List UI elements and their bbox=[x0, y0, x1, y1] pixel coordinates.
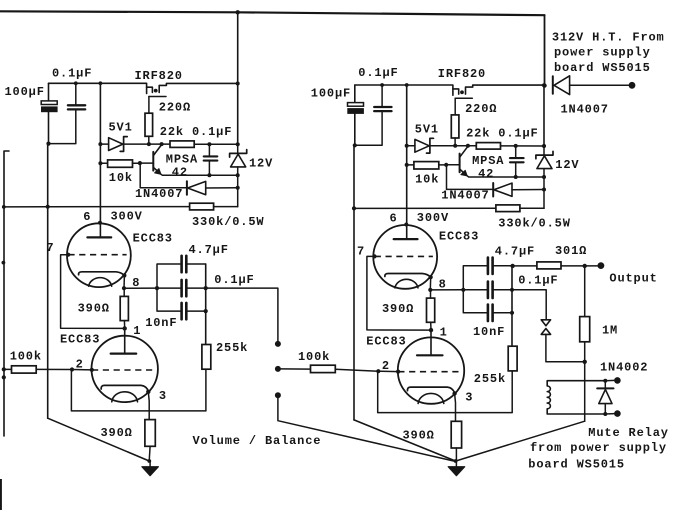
relay coil bbox=[547, 381, 605, 414]
transistor MPSA42 R bbox=[446, 146, 468, 176]
label pin7 R bbox=[357, 244, 365, 258]
connector arrow down bbox=[541, 320, 550, 326]
resistor 22k R bbox=[455, 143, 544, 150]
svg-text:MPSA: MPSA bbox=[166, 152, 198, 166]
junction pin7 L bbox=[66, 253, 70, 257]
junction base node R bbox=[444, 163, 448, 167]
junction pin3 R bbox=[452, 391, 456, 395]
svg-text:IRF820: IRF820 bbox=[135, 69, 183, 83]
label 10k L bbox=[109, 171, 133, 185]
svg-text:board WS5015: board WS5015 bbox=[528, 457, 625, 471]
transistor IRF820 L body bbox=[147, 83, 238, 113]
junction pin3 L bbox=[146, 390, 150, 394]
tube ECC83 lower R envelope bbox=[398, 337, 464, 403]
svg-text:8: 8 bbox=[439, 278, 447, 292]
svg-text:7: 7 bbox=[46, 241, 54, 255]
tube upper cathode R bbox=[385, 274, 431, 288]
resistor 301R bbox=[513, 262, 598, 269]
label 255k L bbox=[216, 341, 248, 355]
svg-text:3: 3 bbox=[465, 391, 473, 405]
svg-text:0.1µF: 0.1µF bbox=[52, 67, 92, 81]
resistor 10k R bbox=[407, 162, 447, 169]
wire 255k loop L bbox=[71, 369, 206, 411]
junction 100uF bottom R bbox=[353, 143, 357, 147]
wire cap ladder left rail R bbox=[461, 266, 486, 313]
svg-text:255k: 255k bbox=[474, 372, 506, 386]
junction 12V top R bbox=[542, 144, 546, 148]
junction pin2 node L bbox=[70, 367, 74, 371]
junction relay top bbox=[603, 379, 607, 383]
resistor 100k input L bbox=[4, 366, 72, 373]
svg-text:1N4007: 1N4007 bbox=[135, 187, 183, 201]
label from power supply bbox=[530, 441, 667, 455]
label pin3 L bbox=[159, 389, 167, 403]
wire HT filter rail R bbox=[355, 85, 453, 95]
diode 1N4007 L bbox=[140, 164, 238, 195]
resistor 330k R bbox=[354, 205, 544, 212]
resistor 390R lower L bbox=[145, 392, 155, 461]
wire emitter row R bbox=[467, 176, 544, 177]
svg-text:10k: 10k bbox=[109, 171, 133, 185]
junction relay bottom bbox=[603, 412, 607, 416]
wire 330k far-left L bbox=[4, 206, 48, 208]
svg-text:301Ω: 301Ω bbox=[555, 244, 587, 258]
tube lower anode R bbox=[417, 330, 443, 355]
junction pin7 R bbox=[372, 254, 376, 258]
junction 10k row R bbox=[405, 163, 409, 167]
svg-text:power supply: power supply bbox=[554, 46, 651, 60]
svg-text:390Ω: 390Ω bbox=[382, 302, 414, 316]
wire supply riser L bbox=[237, 12, 239, 83]
label Volume / Balance bbox=[193, 434, 322, 448]
label 5V1 L bbox=[109, 121, 133, 135]
svg-text:100k: 100k bbox=[298, 350, 330, 364]
capacitor 100uF L bbox=[41, 83, 58, 143]
wire pin2 L bbox=[72, 369, 92, 371]
wire relay drop bbox=[456, 362, 585, 461]
junction pin1 node R bbox=[429, 328, 433, 332]
svg-text:100k: 100k bbox=[10, 349, 42, 363]
label IRF820 L bbox=[135, 69, 183, 83]
wire 255k loop R bbox=[378, 371, 513, 413]
terminal relay top bbox=[605, 377, 620, 384]
label 300V R bbox=[417, 211, 449, 225]
junction input rail c bbox=[2, 367, 6, 371]
resistor 390R upper R bbox=[427, 290, 435, 330]
label 42 R bbox=[478, 167, 494, 181]
label 312V line3 bbox=[554, 61, 651, 75]
label 1M bbox=[602, 323, 618, 337]
junction collector node R bbox=[466, 144, 470, 148]
svg-text:312V H.T. From: 312V H.T. From bbox=[552, 30, 665, 44]
label 0.1uF out R bbox=[518, 273, 558, 287]
svg-text:from power supply: from power supply bbox=[530, 441, 667, 455]
svg-text:8: 8 bbox=[132, 276, 140, 290]
label 100k R bbox=[298, 350, 330, 364]
wire pin8 R bbox=[430, 277, 463, 290]
junction rail top L bbox=[99, 81, 103, 85]
wire pin2 R bbox=[378, 370, 398, 372]
label 390R lower R bbox=[403, 429, 435, 443]
svg-text:1N4007: 1N4007 bbox=[441, 189, 489, 203]
svg-text:0.1µF: 0.1µF bbox=[214, 273, 254, 287]
label 330k/0.5W L bbox=[192, 215, 264, 229]
svg-text:42: 42 bbox=[172, 166, 188, 180]
node volume top bbox=[275, 341, 281, 347]
svg-text:1N4007: 1N4007 bbox=[561, 102, 609, 116]
label 10nF R bbox=[473, 325, 505, 339]
svg-text:2: 2 bbox=[76, 357, 84, 371]
ground R bbox=[448, 459, 465, 476]
label Output bbox=[609, 272, 657, 286]
svg-text:330k/0.5W: 330k/0.5W bbox=[498, 217, 570, 231]
label pin2 R bbox=[382, 359, 390, 373]
label pin6 L bbox=[83, 210, 91, 224]
label 390R lower L bbox=[101, 426, 133, 440]
label 220R L bbox=[159, 100, 191, 114]
svg-text:board WS5015: board WS5015 bbox=[554, 61, 651, 75]
junction drain-rail L bbox=[236, 82, 240, 86]
tube upper cathode L bbox=[79, 272, 125, 286]
label 1N4007 HT bbox=[561, 102, 609, 116]
svg-text:3: 3 bbox=[159, 389, 167, 403]
svg-text:390Ω: 390Ω bbox=[403, 429, 435, 443]
tube ECC83 upper R envelope bbox=[373, 225, 437, 289]
junction input rail a bbox=[2, 205, 6, 209]
label pin1 L bbox=[133, 324, 141, 338]
label ECC83 upper L bbox=[133, 232, 173, 246]
junction 12V bottom R bbox=[542, 175, 546, 179]
junction pin8 cathode R bbox=[429, 275, 433, 279]
terminal Output bbox=[598, 262, 605, 269]
resistor 390R lower R bbox=[451, 394, 461, 462]
wire volume bottom bbox=[278, 398, 454, 461]
ground L bbox=[142, 459, 159, 476]
label 100k L bbox=[10, 349, 42, 363]
label ECC83 lower R bbox=[366, 334, 406, 348]
junction pin8 cathode L bbox=[122, 273, 126, 277]
tube lower grid L bbox=[92, 369, 153, 371]
junction zener row L bbox=[98, 142, 102, 146]
svg-text:1M: 1M bbox=[602, 323, 618, 337]
label Mute Relay bbox=[588, 426, 669, 440]
svg-text:100µF: 100µF bbox=[311, 87, 351, 101]
svg-text:12V: 12V bbox=[249, 156, 273, 170]
junction 330k left R bbox=[352, 206, 356, 210]
label ECC83 upper R bbox=[439, 229, 479, 243]
diode zener 12V R bbox=[536, 146, 553, 208]
tube upper grid L bbox=[68, 254, 126, 256]
resistor 100k input R bbox=[281, 365, 378, 372]
wire 0.1uF to connector bbox=[513, 290, 547, 319]
label pin2 L bbox=[76, 357, 84, 371]
junction output row bbox=[510, 264, 514, 268]
tube lower grid R bbox=[398, 371, 459, 373]
transistor IRF820 R body bbox=[453, 85, 544, 115]
wire HT filter rail L bbox=[49, 83, 147, 93]
wire pin8 L bbox=[124, 276, 157, 289]
junction pin1 node L bbox=[123, 326, 127, 330]
label 220R R bbox=[465, 102, 497, 116]
resistor 255k R bbox=[508, 346, 517, 371]
wire input stub bottom-left bbox=[0, 479, 2, 510]
diode zener 5V1 L bbox=[100, 137, 148, 152]
resistor 220R L bbox=[145, 113, 153, 144]
junction smallcap top R bbox=[514, 144, 518, 148]
svg-text:1: 1 bbox=[440, 326, 448, 340]
terminal relay bottom bbox=[605, 410, 620, 417]
wire pin7 return L bbox=[61, 255, 125, 329]
label 1N4002 bbox=[600, 360, 648, 374]
junction pin8 node L bbox=[122, 286, 126, 290]
svg-text:6: 6 bbox=[83, 210, 91, 224]
diode 1N4007 R bbox=[447, 166, 545, 197]
label pin6 R bbox=[390, 212, 398, 226]
junction smallcap top L bbox=[207, 142, 211, 146]
svg-text:0.1µF: 0.1µF bbox=[518, 273, 558, 287]
wire emitter row L bbox=[161, 174, 238, 175]
svg-text:MPSA: MPSA bbox=[472, 154, 504, 168]
junction 220R bottom R bbox=[453, 144, 457, 148]
resistor 330k L bbox=[48, 203, 238, 210]
resistor 22k L bbox=[149, 141, 238, 148]
svg-text:0.1µF: 0.1µF bbox=[358, 66, 398, 80]
svg-text:22k 0.1µF: 22k 0.1µF bbox=[160, 125, 232, 139]
label pin8 L bbox=[132, 276, 140, 290]
junction collector node L bbox=[160, 142, 164, 146]
tube ECC83 upper L envelope bbox=[67, 223, 131, 287]
svg-text:Output: Output bbox=[609, 272, 657, 286]
wire sense rail L bbox=[99, 83, 101, 207]
label 300V L bbox=[111, 209, 143, 223]
svg-text:255k: 255k bbox=[216, 341, 248, 355]
label 12V L bbox=[249, 156, 273, 170]
junction pin2 grid R bbox=[396, 370, 400, 374]
wire sense rail R bbox=[406, 85, 408, 209]
label 312V line2 bbox=[554, 46, 651, 60]
wire cap rail down L bbox=[48, 144, 150, 461]
wire top HT rail bbox=[0, 11, 545, 15]
wire HT column mid R bbox=[543, 85, 545, 146]
label 5V1 R bbox=[415, 122, 439, 136]
svg-text:ECC83: ECC83 bbox=[439, 229, 479, 243]
svg-text:4.7µF: 4.7µF bbox=[495, 245, 535, 259]
junction input rail b bbox=[2, 261, 6, 265]
capacitor 0.1uF gate R bbox=[510, 146, 524, 177]
junction filmcap top L bbox=[74, 81, 78, 85]
junction 220R bottom L bbox=[147, 142, 151, 146]
resistor 220R R bbox=[451, 115, 459, 146]
label 42 L bbox=[172, 166, 188, 180]
transistor MPSA42 L bbox=[140, 145, 162, 175]
wire pin7 return R bbox=[367, 256, 431, 330]
junction base node L bbox=[138, 161, 142, 165]
label MPSA R bbox=[472, 154, 504, 168]
capacitor 0.1uF supply R bbox=[354, 85, 392, 145]
svg-text:1: 1 bbox=[133, 324, 141, 338]
svg-text:10k: 10k bbox=[415, 173, 439, 187]
junction 1M top bbox=[583, 264, 587, 268]
wire cap ladder right rail R bbox=[494, 266, 514, 347]
junction 1M bottom bbox=[583, 360, 587, 364]
svg-text:5V1: 5V1 bbox=[415, 122, 439, 136]
wire 312V riser bbox=[544, 15, 546, 85]
junction pin2 node R bbox=[376, 369, 380, 373]
wire HT column mid L bbox=[237, 84, 239, 145]
label 0.1uF supply R bbox=[358, 66, 398, 80]
junction filmcap top R bbox=[380, 83, 384, 87]
label 0.1uF out L bbox=[214, 273, 254, 287]
label pin8 R bbox=[439, 278, 447, 292]
junction 12V bottom L bbox=[236, 173, 240, 177]
wire cap ladder right rail L bbox=[188, 264, 208, 345]
svg-text:Volume / Balance: Volume / Balance bbox=[193, 434, 322, 448]
label 1N4007 R bbox=[441, 189, 489, 203]
svg-text:390Ω: 390Ω bbox=[78, 301, 110, 315]
svg-text:2: 2 bbox=[382, 359, 390, 373]
label IRF820 R bbox=[438, 67, 486, 81]
resistor 390R upper L bbox=[120, 288, 128, 328]
node volume bottom bbox=[275, 392, 281, 398]
svg-text:12V: 12V bbox=[555, 158, 579, 172]
junction rail top R bbox=[405, 83, 409, 87]
label pin1 R bbox=[440, 326, 448, 340]
svg-text:390Ω: 390Ω bbox=[101, 426, 133, 440]
label 4.7uF R bbox=[495, 245, 535, 259]
label 100uF L bbox=[5, 85, 45, 99]
junction zener row R bbox=[405, 144, 409, 148]
label 22k 0.1uF L bbox=[160, 125, 232, 139]
svg-text:220Ω: 220Ω bbox=[465, 102, 497, 116]
junction pin2 grid L bbox=[90, 368, 94, 372]
tube lower cathode R bbox=[407, 387, 454, 403]
junction 100uF bottom L bbox=[46, 142, 50, 146]
resistor 1M bbox=[580, 266, 590, 362]
junction diode row L bbox=[236, 186, 240, 190]
svg-text:6: 6 bbox=[390, 212, 398, 226]
svg-text:10nF: 10nF bbox=[473, 325, 505, 339]
capacitor ladder plates R bbox=[488, 258, 493, 322]
junction smallcap bottom R bbox=[514, 175, 518, 179]
junction smallcap bottom L bbox=[207, 173, 211, 177]
junction 10k row L bbox=[98, 161, 102, 165]
label 10k R bbox=[415, 173, 439, 187]
svg-text:ECC83: ECC83 bbox=[366, 334, 406, 348]
svg-text:1N4002: 1N4002 bbox=[600, 360, 648, 374]
label pin3 R bbox=[465, 391, 473, 405]
tube lower cathode L bbox=[101, 385, 148, 401]
diode 1N4007 HT input bbox=[553, 76, 629, 95]
svg-text:300V: 300V bbox=[111, 209, 143, 223]
wire cap ladder left rail L bbox=[155, 264, 180, 311]
junction top rail bbox=[236, 10, 240, 14]
diode zener 12V L bbox=[230, 144, 247, 206]
terminal 312V bbox=[629, 82, 636, 89]
junction 12V top L bbox=[236, 142, 240, 146]
diode zener 5V1 R bbox=[407, 138, 456, 153]
label 12V R bbox=[555, 158, 579, 172]
label MPSA L bbox=[166, 152, 198, 166]
label 312V line1 bbox=[552, 30, 665, 44]
svg-text:300V: 300V bbox=[417, 211, 449, 225]
label 4.7uF L bbox=[189, 243, 229, 257]
connector arrow up bbox=[541, 329, 585, 362]
label 255k R bbox=[474, 372, 506, 386]
svg-text:10nF: 10nF bbox=[145, 316, 177, 330]
wire input rail L bbox=[4, 151, 9, 436]
node volume wiper bbox=[275, 366, 281, 372]
junction 312V node bbox=[542, 83, 546, 87]
svg-text:ECC83: ECC83 bbox=[133, 232, 173, 246]
svg-text:330k/0.5W: 330k/0.5W bbox=[192, 215, 264, 229]
label 390R upper L bbox=[78, 301, 110, 315]
svg-text:4.7µF: 4.7µF bbox=[189, 243, 229, 257]
svg-text:5V1: 5V1 bbox=[109, 121, 133, 135]
resistor 10k L bbox=[100, 160, 139, 167]
tube upper grid R bbox=[375, 255, 433, 257]
tube upper anode R bbox=[394, 209, 418, 239]
wire output coupling L bbox=[206, 288, 278, 341]
capacitor 0.1uF supply L bbox=[48, 83, 85, 143]
svg-text:Mute Relay: Mute Relay bbox=[588, 426, 669, 440]
junction input rail d bbox=[2, 375, 6, 379]
svg-text:IRF820: IRF820 bbox=[438, 67, 486, 81]
svg-text:220Ω: 220Ω bbox=[159, 100, 191, 114]
junction diode row R bbox=[542, 188, 546, 192]
junction 330k left L bbox=[46, 205, 50, 209]
label 1N4007 L bbox=[135, 187, 183, 201]
resistor 255k L bbox=[202, 345, 211, 370]
label 22k 0.1uF R bbox=[466, 127, 538, 141]
diode 1N4002 bbox=[597, 381, 613, 414]
svg-text:100µF: 100µF bbox=[5, 85, 45, 99]
tube ECC83 lower L envelope bbox=[92, 336, 158, 402]
capacitor ladder plates L bbox=[182, 256, 187, 319]
label ECC83 lower L bbox=[60, 333, 100, 347]
svg-text:22k 0.1µF: 22k 0.1µF bbox=[466, 127, 538, 141]
label 0.1uF supply L bbox=[52, 67, 92, 81]
label board WS5015 bbox=[528, 457, 625, 471]
svg-text:7: 7 bbox=[357, 244, 365, 258]
tube upper anode L bbox=[87, 207, 111, 237]
label 390R upper R bbox=[382, 302, 414, 316]
svg-text:ECC83: ECC83 bbox=[60, 333, 100, 347]
label 100uF R bbox=[311, 87, 351, 101]
label 301R bbox=[555, 244, 587, 258]
junction drain-rail R bbox=[542, 83, 546, 87]
label 10nF L bbox=[145, 316, 177, 330]
wire cap rail down R bbox=[354, 145, 456, 461]
label pin7 L bbox=[46, 241, 54, 255]
capacitor 0.1uF gate L bbox=[204, 144, 218, 175]
tube lower anode L bbox=[111, 328, 137, 353]
junction pin8 node R bbox=[428, 288, 432, 292]
label 330k/0.5W R bbox=[498, 217, 570, 231]
svg-text:42: 42 bbox=[478, 167, 494, 181]
capacitor 100uF R bbox=[347, 85, 364, 145]
